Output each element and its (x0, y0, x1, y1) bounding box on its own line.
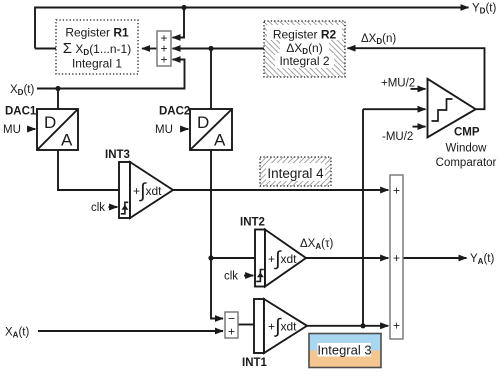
svg-text:Integral 1: Integral 1 (72, 57, 122, 71)
svg-text:−: − (228, 312, 235, 326)
svg-text:Register R1: Register R1 (65, 26, 129, 40)
svg-text:Σ XD(1...n-1): Σ XD(1...n-1) (63, 40, 131, 57)
svg-text:Register R2: Register R2 (273, 28, 337, 42)
svg-text:clk: clk (224, 271, 238, 283)
svg-text:+MU/2: +MU/2 (381, 78, 415, 90)
svg-text:clk: clk (91, 202, 105, 214)
svg-text:+: + (228, 325, 235, 339)
svg-text:Window: Window (446, 143, 488, 155)
svg-text:Integral 2: Integral 2 (279, 54, 329, 68)
svg-text:DAC2: DAC2 (159, 106, 190, 118)
svg-text:+: + (160, 53, 167, 67)
svg-text:INT3: INT3 (105, 149, 130, 161)
svg-text:+: + (393, 319, 400, 333)
svg-text:Integral 3: Integral 3 (317, 343, 371, 358)
svg-text:Integral 4: Integral 4 (267, 166, 324, 181)
svg-text:D: D (44, 113, 56, 132)
svg-text:MU: MU (3, 124, 21, 136)
svg-text:MU: MU (155, 124, 173, 136)
svg-text:INT2: INT2 (240, 217, 265, 229)
svg-text:+: + (393, 251, 400, 265)
svg-text:A: A (214, 131, 226, 150)
svg-text:A: A (61, 131, 73, 150)
svg-text:D: D (197, 113, 209, 132)
svg-text:INT1: INT1 (242, 357, 268, 369)
svg-text:Comparator: Comparator (436, 157, 497, 169)
svg-text:-MU/2: -MU/2 (382, 131, 413, 143)
svg-text:+: + (393, 183, 400, 197)
svg-text:CMP: CMP (454, 127, 480, 139)
svg-text:DAC1: DAC1 (5, 106, 37, 118)
